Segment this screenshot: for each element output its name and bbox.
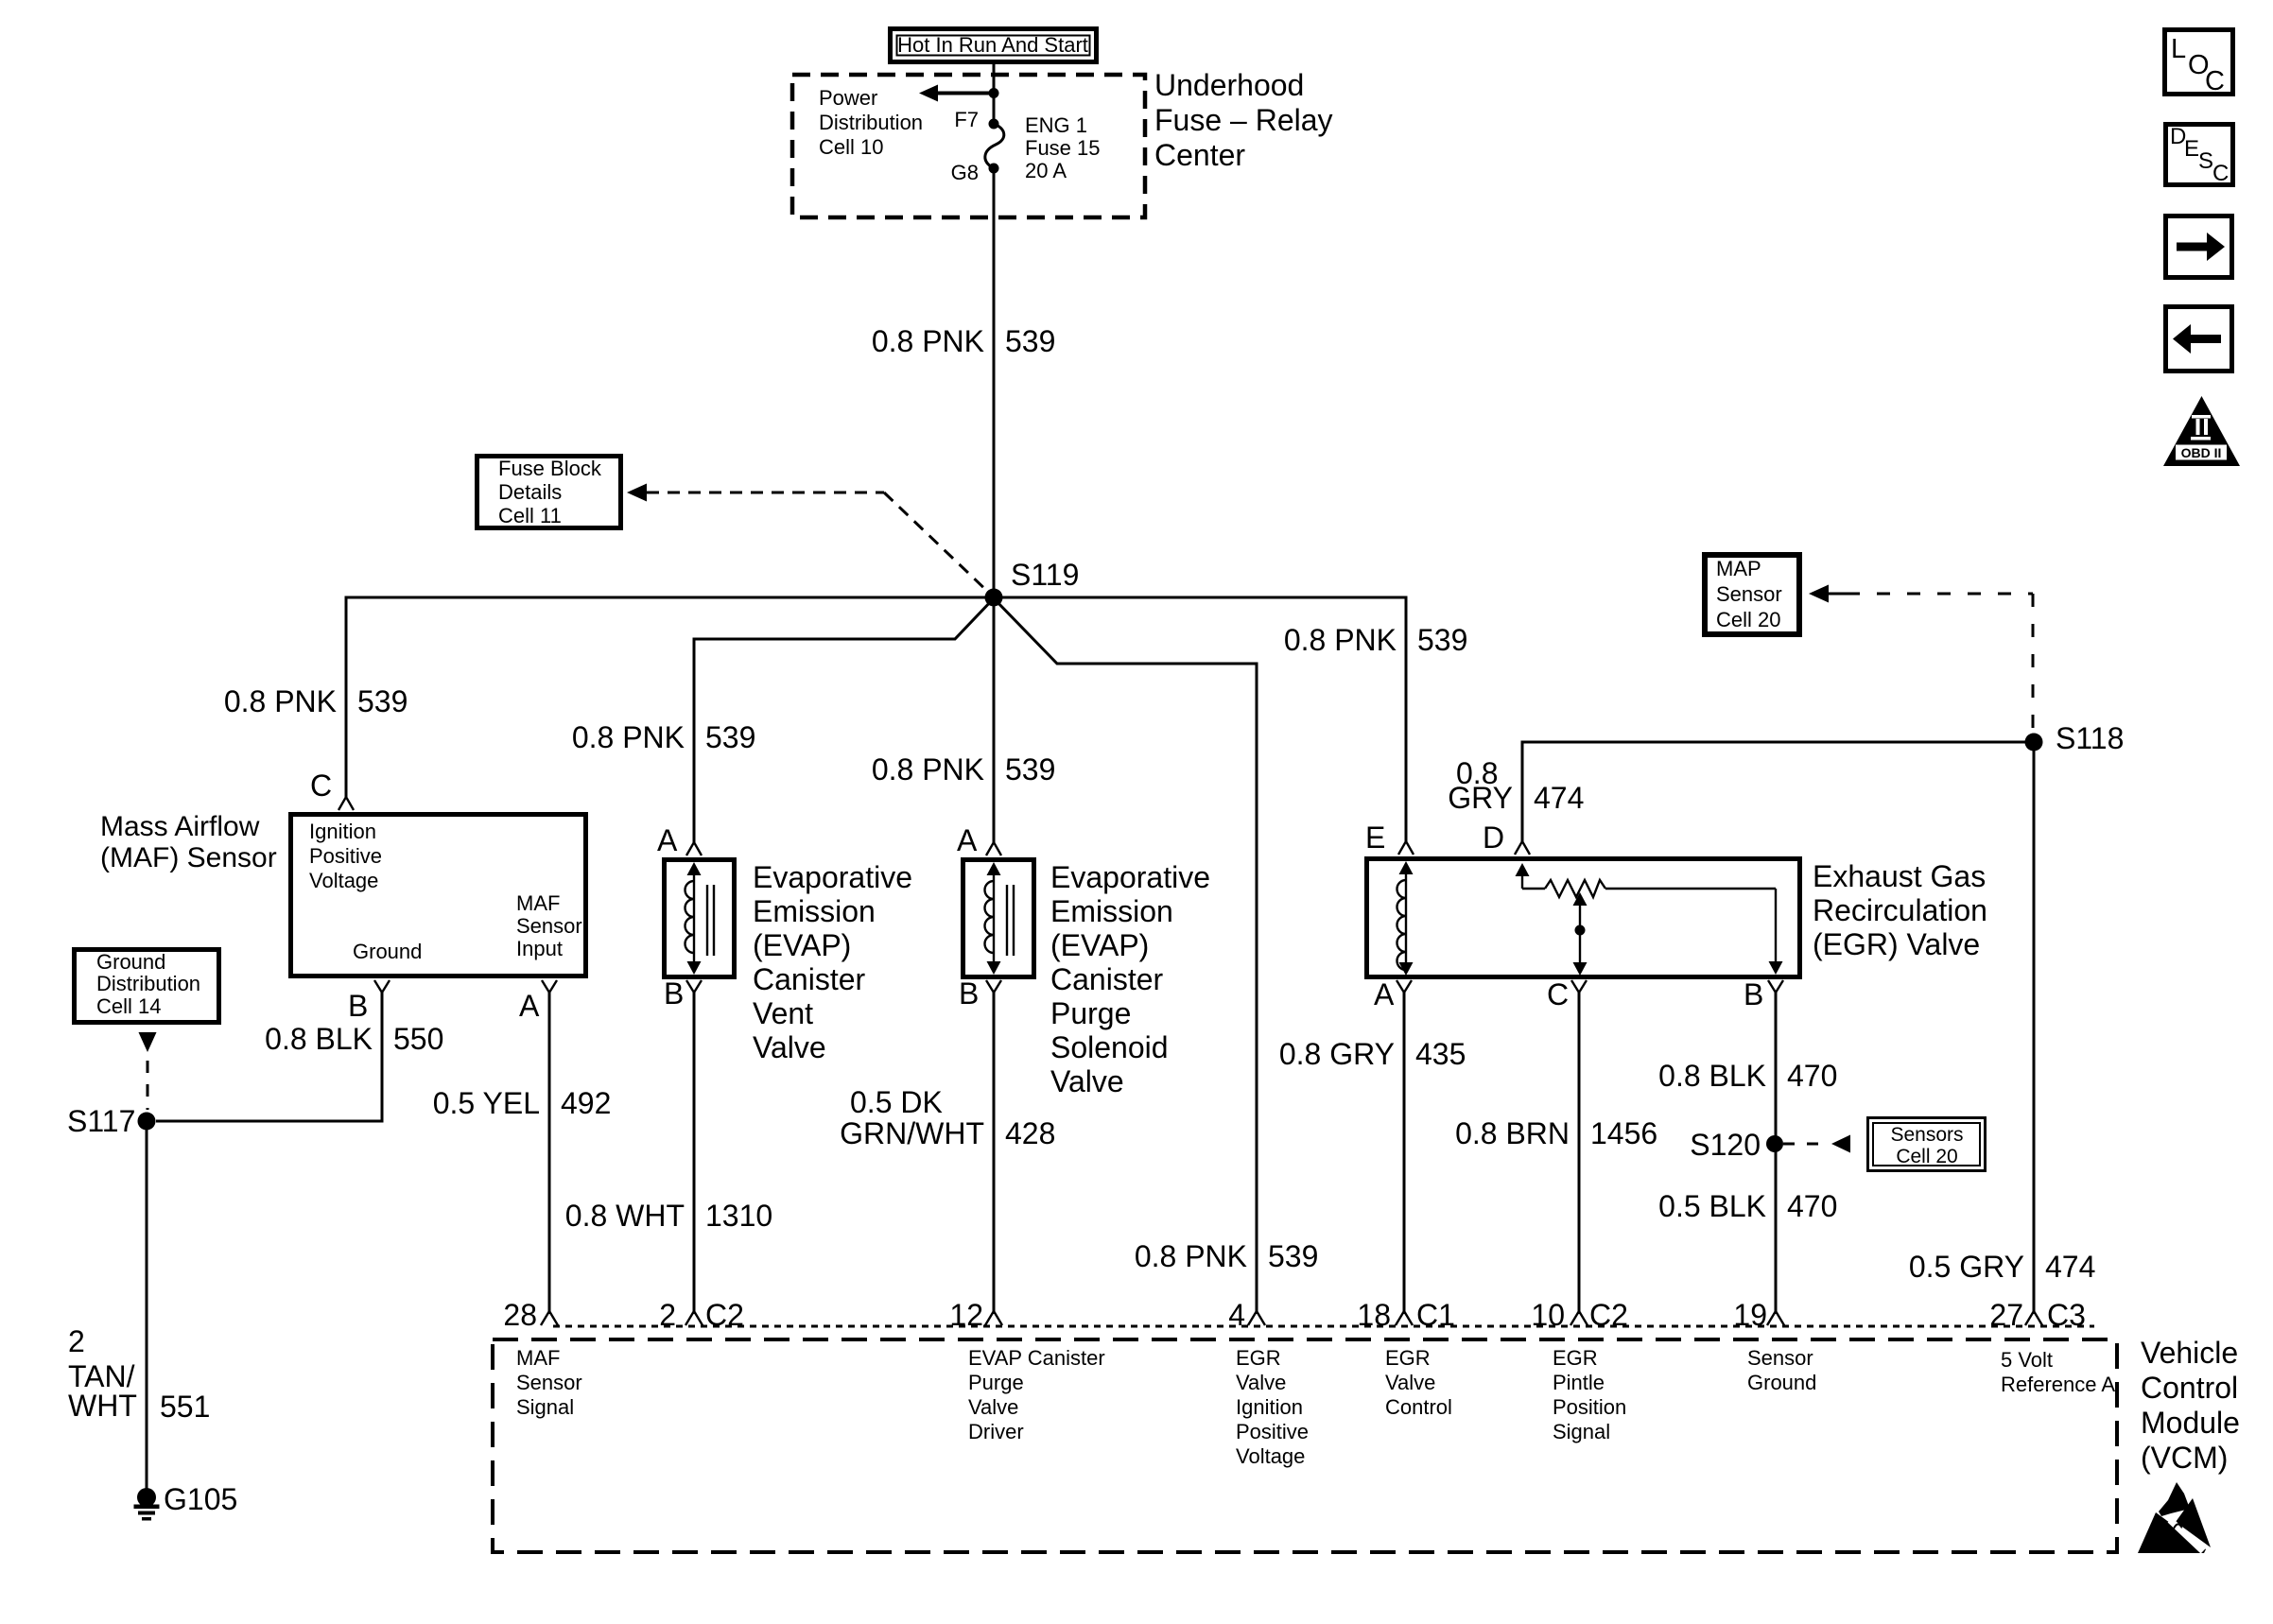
svg-text:(EGR) Valve: (EGR) Valve [1813,927,1980,961]
svg-text:WHT: WHT [68,1389,137,1423]
wire: S119 branch (0.8 PNK 539) to VCM pin 4 [994,598,1257,1314]
svg-text:Mass Airflow: Mass Airflow [100,811,260,842]
svg-text:Underhood: Underhood [1154,68,1304,102]
pin D of EGR valve [1483,821,1530,855]
fuse ENG 1 Fuse 15 20 A (terminals F7/G8) [985,119,1004,174]
svg-text:C1: C1 [1416,1298,1455,1332]
svg-text:0.8 PNK: 0.8 PNK [1284,623,1397,657]
label: 0.8 GRY 474 [1448,756,1584,815]
svg-text:(EVAP): (EVAP) [753,928,851,962]
svg-text:OBD II: OBD II [2181,445,2222,460]
wire: 0.8 PNK 539 from fuse G8 down to splice S119 [993,168,996,597]
svg-text:C: C [310,769,332,803]
svg-text:Sensors: Sensors [1890,1124,1963,1146]
svg-text:GRY: GRY [1448,781,1513,815]
svg-text:Canister: Canister [1050,962,1164,996]
label: 0.8 BLK 550 [265,1022,443,1056]
svg-text:Fuse – Relay: Fuse – Relay [1154,103,1333,137]
MAF internal label: MAF Sensor Input [516,891,582,960]
svg-text:Cell 10: Cell 10 [819,135,883,159]
VCM pin label: EVAP Canister Purge Valve Driver [968,1346,1105,1443]
svg-text:Center: Center [1154,138,1245,172]
svg-text:C: C [2212,161,2229,186]
svg-text:Position: Position [1553,1395,1626,1419]
svg-text:Ground: Ground [1747,1371,1816,1394]
svg-text:Sensor: Sensor [516,914,582,938]
svg-text:ENG 1: ENG 1 [1025,113,1087,137]
icon: DESC box [2166,124,2233,186]
wire: 0.8 BLK 550 from MAF pin B to splice S117 [156,993,382,1121]
EVAP canister vent valve box [665,860,735,977]
wire: S119 left branch (0.8 PNK 539) to MAF sensor pin C [346,597,994,797]
svg-text:Input: Input [516,937,563,960]
svg-text:Ground: Ground [96,950,165,974]
svg-text:0.5 GRY: 0.5 GRY [1909,1250,2024,1284]
svg-text:0.8 PNK: 0.8 PNK [224,684,337,718]
svg-text:12: 12 [949,1298,983,1332]
icon: OBD II triangle [2163,396,2240,466]
svg-text:474: 474 [1534,781,1584,815]
ground G105 [134,1488,160,1521]
svg-text:Exhaust Gas: Exhaust Gas [1813,859,1986,893]
wire: 0.8 WHT 1310 from vent valve pin B to VCM pin 2 [693,993,696,1314]
label: Exhaust Gas Recirculation (EGR) Valve [1813,859,1987,961]
VCM connector fine dashed line [553,1325,2094,1328]
pin C of EGR valve [1547,977,1587,1011]
VCM pin label: 5 Volt Reference A [2001,1348,2115,1396]
wire: 0.8 BLK 470 from EGR pin B to splice S120 and on to VCM pin 19 [1775,993,1778,1314]
ESD sensitivity symbol inside VCM [2138,1482,2211,1553]
wire: S119 branch (0.8 PNK 539) to EVAP vent valve pin A [694,598,994,842]
svg-text:GRN/WHT: GRN/WHT [840,1116,984,1150]
label: 0.8 WHT 1310 [565,1199,772,1233]
svg-text:Ignition: Ignition [309,820,376,843]
reference box: MAP Sensor Cell 20 [1705,555,1799,634]
svg-text:A: A [519,989,540,1023]
svg-text:EGR: EGR [1553,1346,1598,1370]
svg-text:0.5 DK: 0.5 DK [850,1085,943,1119]
svg-text:Valve: Valve [968,1395,1018,1419]
junction node at fuse feed [989,88,999,98]
svg-text:Emission: Emission [753,894,876,928]
EGR valve box [1367,859,1800,977]
svg-text:551: 551 [160,1390,210,1424]
svg-text:EGR: EGR [1236,1346,1281,1370]
svg-text:Evaporative: Evaporative [1050,860,1210,894]
svg-text:0.8 BLK: 0.8 BLK [265,1022,373,1056]
svg-text:Voltage: Voltage [309,869,378,892]
vent valve solenoid symbol [685,862,715,975]
wire: 2 TAN/WHT 551 from S117 to ground G105 [146,1121,148,1490]
splice S118 [2025,734,2043,752]
label: Mass Airflow (MAF) Sensor [100,811,277,873]
svg-text:Solenoid: Solenoid [1050,1030,1169,1064]
wire: S119 right branch (0.8 PNK 539) to EGR pin E [994,597,1406,841]
VCM pin label: Sensor Ground [1747,1346,1816,1394]
svg-text:0.8 GRY: 0.8 GRY [1279,1037,1395,1071]
svg-text:C: C [1547,977,1569,1011]
splice S117 [138,1113,156,1131]
svg-text:Distribution: Distribution [819,111,923,134]
svg-text:E: E [1365,821,1385,855]
svg-text:10: 10 [1531,1298,1565,1332]
svg-text:Control: Control [1385,1395,1452,1419]
VCM pin 18 C1 [1357,1298,1455,1332]
svg-text:S120: S120 [1690,1128,1761,1162]
svg-text:Cell 20: Cell 20 [1716,608,1780,631]
wire: 0.8 GRY 474 from splice S118 to EGR pin D [1522,742,2034,841]
EGR potentiometer wiper arm (pin C) [1573,892,1588,976]
svg-text:Pintle: Pintle [1553,1371,1605,1394]
svg-text:Hot In Run And Start: Hot In Run And Start [897,33,1088,57]
svg-text:Recirculation: Recirculation [1813,893,1987,927]
svg-text:G8: G8 [951,161,979,184]
svg-text:A: A [657,823,678,857]
label: 0.8 GRY 435 [1279,1037,1466,1071]
svg-text:Voltage: Voltage [1236,1444,1305,1468]
svg-text:20 A: 20 A [1025,159,1067,182]
Underhood Fuse-Relay Center dashed box [792,75,1145,217]
svg-text:Fuse 15: Fuse 15 [1025,136,1101,160]
svg-text:C2: C2 [1589,1298,1628,1332]
wire: 0.5 YEL 492 from MAF pin A to VCM pin 28 [548,993,551,1314]
wire: 0.5 GRY 474 from S118 down to VCM pin 27 [2033,742,2036,1314]
svg-text:Evaporative: Evaporative [753,860,912,894]
VCM pin 28 [503,1298,558,1332]
svg-text:Valve: Valve [753,1030,826,1064]
svg-text:G105: G105 [164,1482,237,1516]
svg-text:(VCM): (VCM) [2141,1441,2228,1475]
EGR solenoid coil symbol (pin E to A) [1397,861,1414,976]
pin B of MAF sensor [348,980,390,1023]
svg-text:Reference A: Reference A [2001,1373,2115,1396]
svg-text:B: B [348,989,368,1023]
svg-text:Purge: Purge [968,1371,1024,1394]
svg-text:C: C [2205,66,2225,96]
power feed label box: Hot In Run And Start [891,29,1097,62]
svg-text:0.8 BRN: 0.8 BRN [1455,1116,1570,1150]
svg-text:E: E [2184,136,2199,162]
wire: 0.5 DK GRN/WHT 428 from purge valve pin B to VCM pin 12 [993,993,996,1314]
svg-text:S118: S118 [2056,721,2124,755]
purge valve solenoid symbol [985,862,1015,975]
svg-text:Purge: Purge [1050,996,1131,1030]
svg-text:28: 28 [503,1298,537,1332]
icon: LOC box [2165,30,2233,97]
dashed reference arrow from S119 to Fuse Block Details box [627,484,990,595]
VCM pin 19 [1733,1298,1784,1332]
svg-text:MAF: MAF [516,891,560,915]
label: 0.8 BLK 470 [1658,1059,1837,1093]
svg-text:Sensor: Sensor [516,1371,582,1394]
label: 0.5 BLK 470 [1658,1189,1837,1223]
svg-text:B: B [959,976,979,1011]
svg-text:Power: Power [819,86,877,110]
reference box: Ground Distribution Cell 14 [75,950,219,1023]
VCM pin 2 C2 [659,1298,744,1332]
svg-text:Valve: Valve [1050,1064,1124,1098]
VCM pin label: MAF Sensor Signal [516,1346,582,1419]
VCM pin 12 [949,1298,1002,1332]
svg-text:0.5 BLK: 0.5 BLK [1658,1189,1766,1223]
svg-text:S: S [2198,148,2213,174]
svg-text:539: 539 [1005,752,1055,786]
VCM pin label: EGR Pintle Position Signal [1553,1346,1626,1443]
svg-text:2: 2 [659,1298,676,1332]
svg-text:C3: C3 [2047,1298,2086,1332]
svg-text:0.8 PNK: 0.8 PNK [1135,1239,1247,1273]
reference box: Fuse Block Details Cell 11 [477,457,621,528]
label: 0.8 PNK 539 (VCM pin 4 branch) [1135,1239,1319,1273]
VCM pin 4 [1228,1298,1265,1332]
svg-text:Valve: Valve [1385,1371,1435,1394]
label: 2 TAN/WHT 551 [68,1324,210,1424]
svg-text:EGR: EGR [1385,1346,1431,1370]
svg-text:EVAP Canister: EVAP Canister [968,1346,1105,1370]
svg-text:2: 2 [68,1324,85,1358]
svg-text:Control: Control [2141,1371,2238,1405]
pin B of EGR valve [1744,977,1783,1011]
svg-text:539: 539 [357,684,408,718]
svg-text:0.8 WHT: 0.8 WHT [565,1199,685,1233]
svg-text:0.8 PNK: 0.8 PNK [872,752,984,786]
label: 0.8 PNK 539 (feed wire) [872,324,1056,358]
svg-text:C2: C2 [705,1298,744,1332]
svg-text:Fuse Block: Fuse Block [498,457,602,480]
svg-text:A: A [1374,977,1395,1011]
label: Evaporative Emission (EVAP) Canister Purge Solenoid Valve [1050,860,1210,1098]
reference box: Sensors Cell 20 [1868,1118,1986,1171]
svg-text:B: B [664,976,684,1011]
svg-text:Ignition: Ignition [1236,1395,1303,1419]
VCM pin label: EGR Valve Ignition Positive Voltage [1236,1346,1309,1468]
svg-text:1456: 1456 [1590,1116,1657,1150]
label: 0.8 PNK 539 (MAF branch) [224,684,408,718]
svg-text:0.8 BLK: 0.8 BLK [1658,1059,1766,1093]
VCM pin label: EGR Valve Control [1385,1346,1452,1419]
svg-text:MAF: MAF [516,1346,560,1370]
svg-text:435: 435 [1415,1037,1466,1071]
svg-text:Vehicle: Vehicle [2141,1336,2238,1370]
svg-text:MAP: MAP [1716,557,1761,580]
label: Evaporative Emission (EVAP) Canister Vent Valve [753,860,912,1064]
VCM pin 27 C3 [1989,1298,2086,1332]
svg-text:5 Volt: 5 Volt [2001,1348,2053,1372]
pin A of EVAP canister vent valve [657,823,702,857]
svg-text:539: 539 [1005,324,1055,358]
splice S120 [1766,1135,1783,1152]
label: 0.5 YEL 492 [433,1086,612,1120]
svg-text:Cell 11: Cell 11 [498,504,562,527]
svg-text:Signal: Signal [516,1395,574,1419]
svg-text:539: 539 [1417,623,1467,657]
label: Power Distribution Cell 10 [819,86,923,159]
wire: S119 down (0.8 PNK 539) to EVAP purge valve pin A [993,597,996,842]
icon: back arrow box [2166,307,2232,371]
svg-text:539: 539 [1268,1239,1318,1273]
pin B of EVAP canister purge solenoid valve [959,976,1001,1011]
MAF sensor box [291,815,586,976]
pin A of MAF sensor [519,980,557,1023]
wire: feed from Hot In Run And Start to fuse terminal F7 [993,62,996,124]
svg-text:A: A [957,823,978,857]
svg-text:Vent: Vent [753,996,813,1030]
svg-text:Sensor: Sensor [1716,582,1782,606]
label: 0.5 GRY 474 [1909,1250,2096,1284]
svg-text:4: 4 [1228,1298,1245,1332]
svg-text:492: 492 [561,1086,611,1120]
svg-text:Valve: Valve [1236,1371,1286,1394]
svg-text:S117: S117 [67,1104,135,1138]
svg-text:539: 539 [705,720,755,754]
svg-text:(MAF) Sensor: (MAF) Sensor [100,842,277,873]
pin A of EGR valve [1374,977,1412,1011]
svg-text:Cell 20: Cell 20 [1896,1146,1957,1167]
svg-text:428: 428 [1005,1116,1055,1150]
svg-text:Canister: Canister [753,962,866,996]
EGR pintle position potentiometer (resistor D to B) [1516,863,1783,975]
svg-text:Signal: Signal [1553,1420,1610,1443]
wire: 0.8 BRN 1456 from EGR pin C to VCM pin 10 [1578,993,1581,1314]
MAF internal label: Ignition Positive Voltage [309,820,382,892]
Vehicle Control Module (VCM) dashed box [493,1339,2117,1552]
pin E of EGR valve [1365,821,1414,855]
dashed reference arrow from S118 up to MAP Sensor Cell 20 box [1809,585,2033,736]
svg-text:Driver: Driver [968,1420,1024,1443]
svg-text:0.8 PNK: 0.8 PNK [572,720,685,754]
svg-text:Details: Details [498,480,562,504]
svg-text:S119: S119 [1011,558,1079,592]
splice S119 [985,589,1003,607]
dashed reference arrow from Ground Distribution box to S117 [139,1032,157,1110]
svg-text:550: 550 [393,1022,443,1056]
pin C of MAF sensor [310,769,354,810]
label: 0.8 BRN 1456 [1455,1116,1657,1150]
svg-text:0.8 PNK: 0.8 PNK [872,324,984,358]
svg-text:(EVAP): (EVAP) [1050,928,1149,962]
svg-text:1310: 1310 [705,1199,772,1233]
svg-text:Ground: Ground [353,940,422,963]
svg-text:Positive: Positive [1236,1420,1309,1443]
svg-text:470: 470 [1787,1189,1837,1223]
svg-text:L: L [2171,34,2186,64]
arrow wire to Power Distribution Cell 10 [919,85,994,102]
label: Underhood Fuse - Relay Center [1154,68,1333,172]
label: 0.5 DK GRN/WHT 428 [840,1085,1055,1150]
svg-text:B: B [1744,977,1763,1011]
svg-text:Distribution: Distribution [96,972,200,995]
svg-text:Module: Module [2141,1406,2240,1440]
svg-text:Cell 14: Cell 14 [96,994,161,1018]
label: ENG 1 Fuse 15 20 A [1025,113,1101,182]
pin A of EVAP canister purge solenoid valve [957,823,1001,857]
wire: 0.8 GRY 435 from EGR pin A to VCM pin 18 [1403,993,1406,1314]
svg-text:Emission: Emission [1050,894,1173,928]
svg-text:Positive: Positive [309,844,382,868]
svg-text:470: 470 [1787,1059,1837,1093]
svg-text:F7: F7 [954,108,979,131]
svg-text:0.5 YEL: 0.5 YEL [433,1086,540,1120]
VCM pin 10 C2 [1531,1298,1628,1332]
icon: forward arrow box [2166,216,2232,278]
EVAP canister purge solenoid valve box [963,860,1034,977]
svg-text:D: D [1483,821,1504,855]
label: 0.8 PNK 539 (vent valve branch) [572,720,756,754]
label: Vehicle Control Module (VCM) [2141,1336,2240,1475]
dashed reference arrow from S120 to Sensors Cell 20 box [1783,1135,1850,1153]
label: 0.8 PNK 539 (EGR E branch) [1284,623,1468,657]
svg-text:Sensor: Sensor [1747,1346,1813,1370]
pin B of EVAP canister vent valve [664,976,702,1011]
svg-text:18: 18 [1357,1298,1391,1332]
svg-text:27: 27 [1989,1298,2023,1332]
svg-text:474: 474 [2045,1250,2095,1284]
svg-text:19: 19 [1733,1298,1767,1332]
label: 0.8 PNK 539 (purge valve branch) [872,752,1056,786]
